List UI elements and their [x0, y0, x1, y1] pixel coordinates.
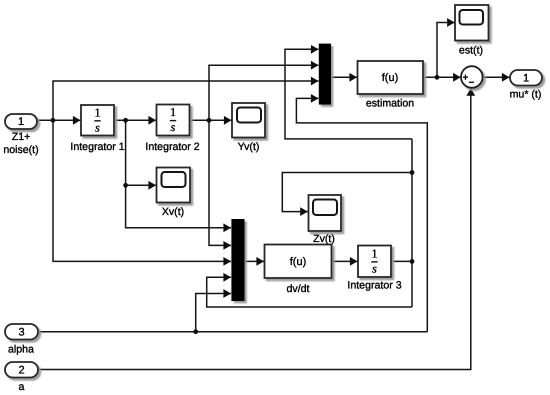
svg-text:f(u): f(u) [290, 256, 307, 268]
svg-text:3: 3 [18, 327, 24, 339]
svg-text:a: a [19, 381, 25, 393]
svg-text:alpha: alpha [8, 344, 34, 356]
svg-text:noise(t): noise(t) [3, 144, 38, 156]
svg-text:Zv(t): Zv(t) [313, 233, 335, 245]
svg-text:1: 1 [170, 105, 176, 119]
svg-text:dv/dt: dv/dt [287, 283, 310, 295]
svg-text:est(t): est(t) [459, 45, 483, 57]
svg-text:1: 1 [372, 246, 378, 260]
svg-text:Integrator 2: Integrator 2 [145, 141, 199, 153]
svg-text:Integrator 3: Integrator 3 [347, 280, 401, 292]
svg-text:estimation: estimation [366, 98, 414, 110]
svg-text:Integrator 1: Integrator 1 [70, 141, 124, 153]
svg-text:Xv(t): Xv(t) [162, 206, 184, 218]
svg-text:Z1+: Z1+ [12, 131, 31, 143]
svg-text:s: s [171, 120, 176, 134]
svg-text:1: 1 [18, 116, 24, 128]
svg-text:2: 2 [18, 365, 24, 377]
svg-text:1: 1 [95, 105, 101, 119]
svg-text:Yv(t): Yv(t) [238, 141, 260, 153]
svg-text:1: 1 [523, 73, 529, 85]
svg-text:mu* (t): mu* (t) [510, 89, 542, 101]
svg-text:s: s [95, 120, 100, 134]
svg-text:s: s [372, 262, 377, 276]
svg-text:f(u): f(u) [382, 72, 399, 84]
